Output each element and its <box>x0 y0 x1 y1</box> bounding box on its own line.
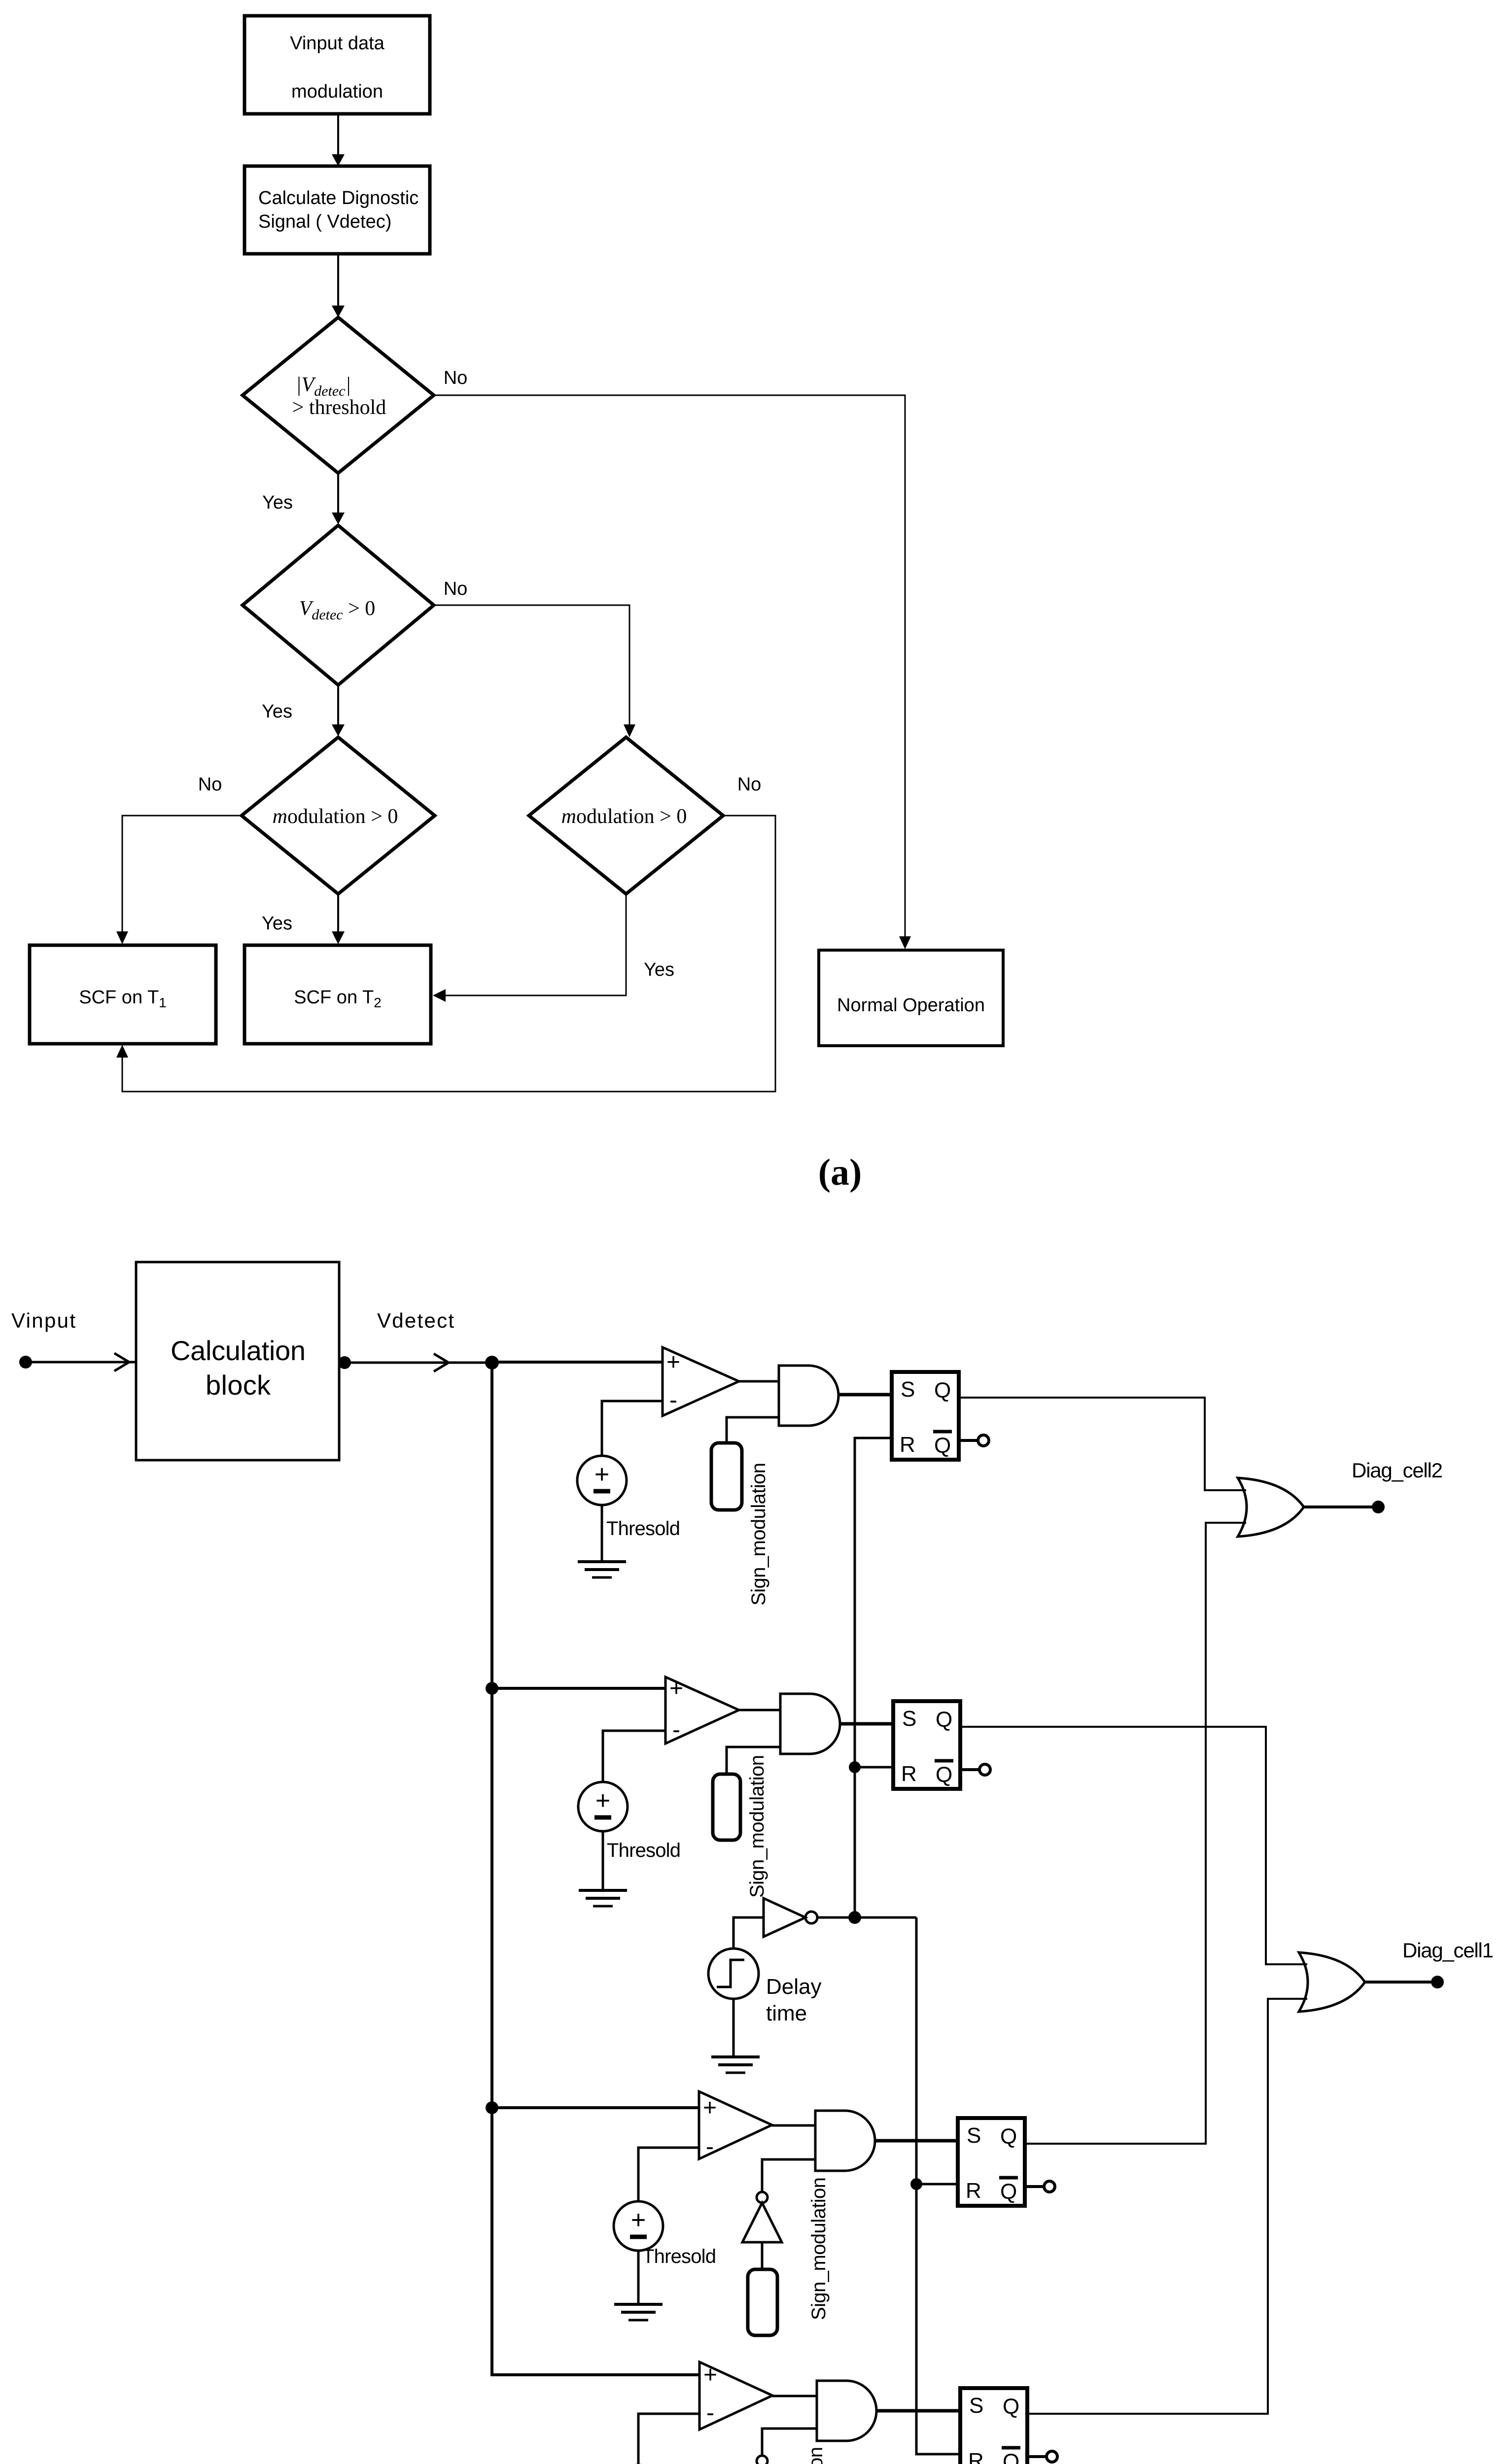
wire: pill P2 to AND G2 lower input <box>727 1747 780 1774</box>
source V0: Delay time (step source) <box>708 1949 759 1999</box>
svg-text:Q: Q <box>1000 2180 1017 2204</box>
svg-text:SCF on T2: SCF on T2 <box>294 987 382 1010</box>
svg-text:+: + <box>594 1460 609 1489</box>
wire: Vdetect line with arrowhead to main node <box>345 1354 492 1371</box>
node Vinput terminal dot <box>19 1356 32 1369</box>
pin FF3 Qbar output stub and bubble <box>1025 2181 1055 2192</box>
wire: pill P3 to NOT N3 <box>761 2242 764 2269</box>
op-amp comparator U2 <box>665 1676 739 1744</box>
wire: diamond1 No to Normal Operation <box>434 395 911 949</box>
svg-text:SCF on T1: SCF on T1 <box>79 987 167 1010</box>
svg-text:Diag_cell2: Diag_cell2 <box>1352 1459 1443 1482</box>
AND gate G4 <box>817 2381 876 2441</box>
wire: FF1 Q to OR1 top input <box>959 1398 1246 1490</box>
svg-text:Sign_modulation: Sign_modulation <box>748 1463 769 1606</box>
svg-text:Q: Q <box>934 1434 951 1458</box>
wire: OR1 output to Diag_cell2 terminal <box>1304 1506 1378 1508</box>
AND gate G3 <box>815 2111 875 2171</box>
op-amp comparator U3 <box>699 2091 772 2160</box>
svg-text:-: - <box>672 1717 680 1743</box>
NOT gate N0 (delay inverter, pointing right) <box>764 1898 817 1937</box>
wire: diamond4 Yes to SCF T2 right <box>433 894 626 1002</box>
wire: box1 to box2 arrow <box>332 114 345 166</box>
svg-text:modulation > 0: modulation > 0 <box>273 805 398 828</box>
voltage source V3 Threshold <box>614 2201 663 2251</box>
svg-text:S: S <box>901 1377 915 1402</box>
SR latch FF1 <box>892 1372 959 1460</box>
wire: NOT N0 output to reset node <box>817 1916 916 1919</box>
node A: main junction dot <box>485 1356 499 1369</box>
svg-text:Sign_modulation: Sign_modulation <box>746 1755 768 1898</box>
SR latch FF2 <box>893 1701 960 1789</box>
wire: FF3 R stub <box>916 2183 958 2186</box>
svg-text:R: R <box>966 2179 981 2203</box>
node: Diag_cell1 terminal dot <box>1431 1976 1444 1988</box>
wire: reset line down to FF3 R and FF4 R <box>916 1917 960 2454</box>
node C: branch dot channel3 <box>486 2101 498 2114</box>
pin FF2 Qbar output stub and bubble <box>960 1764 990 1775</box>
wire: delay source to NOT N0 input <box>733 1917 764 1949</box>
svg-text:+: + <box>669 1676 683 1702</box>
wire: pill P1 to AND G1 lower input <box>727 1417 779 1443</box>
wire: diamond3 Yes to SCF T2 <box>332 894 345 944</box>
wire: threshold V3 to U3 - input <box>638 2148 699 2201</box>
wire: main vertical bus <box>492 1363 699 2375</box>
SR latch FF4 <box>960 2388 1027 2464</box>
pin FF1 Qbar output stub and bubble <box>959 1435 989 1446</box>
decision diamond3: modulation > 0 (left) <box>242 737 435 894</box>
svg-text:+: + <box>666 1349 680 1375</box>
wire: AND G4 output to FF4 S <box>877 2409 960 2413</box>
svg-text:Yes: Yes <box>262 701 292 722</box>
flowchart box: Vinput data modulation <box>244 16 430 114</box>
node: Calculation block output dot <box>338 1356 351 1369</box>
NOT gate N4 (inverter, pointing up) <box>742 2456 782 2464</box>
svg-text:Thresold: Thresold <box>606 1518 680 1540</box>
svg-text:R: R <box>900 1433 915 1457</box>
svg-text:Thresold: Thresold <box>607 1840 681 1861</box>
wire: U2 output to AND G2 <box>739 1709 780 1711</box>
wire: NOT N3 output to AND G3 lower input <box>762 2159 815 2191</box>
svg-text:Normal Operation: Normal Operation <box>837 995 985 1016</box>
svg-text:> threshold: > threshold <box>292 396 386 419</box>
svg-text:time: time <box>766 2001 807 2025</box>
svg-text:Sign_modulation: Sign_modulation <box>805 2447 827 2464</box>
svg-text:modulation > 0: modulation > 0 <box>561 805 687 828</box>
svg-text:Yes: Yes <box>262 492 293 513</box>
wire: V2 to ground <box>602 1832 604 1890</box>
node: FF3 R junction dot <box>910 2178 922 2190</box>
wire: threshold V4 to U4 - input <box>638 2414 699 2464</box>
svg-text:block: block <box>206 1369 271 1401</box>
wire: reset vertical to FF1 R and FF2 R <box>855 1438 892 1917</box>
OR gate OR2 <box>1299 1952 1365 2012</box>
node B: branch dot channel2 <box>486 1682 498 1695</box>
svg-text:R: R <box>968 2449 984 2464</box>
pin FF4 Qbar output stub and bubble <box>1027 2451 1057 2462</box>
wire: FF3 Q to OR1 bottom input <box>1025 1523 1246 2144</box>
wire: OR2 output to Diag_cell1 terminal <box>1365 1981 1437 1984</box>
voltage source V1 Threshold <box>577 1456 627 1505</box>
wire: FF4 Q to OR2 bottom input <box>1027 1999 1307 2414</box>
svg-text:-: - <box>706 2134 714 2160</box>
svg-text:S: S <box>967 2123 981 2148</box>
ground GND0 <box>711 2057 760 2073</box>
svg-text:Q: Q <box>936 1763 952 1787</box>
wire: node B to comparator U2 + input <box>492 1687 665 1690</box>
svg-text:Diag_cell1: Diag_cell1 <box>1402 1939 1494 1962</box>
decision diamond2: Vdetec > 0 <box>243 525 434 685</box>
wire: diamond2 Yes to diamond3 <box>332 685 345 736</box>
ground GND3 <box>614 2304 663 2320</box>
wire: node C to comparator U3 + input <box>492 2106 699 2109</box>
wire: U3 output to AND G3 <box>772 2124 815 2127</box>
svg-text:Delay: Delay <box>766 1975 822 1999</box>
svg-text:Thresold: Thresold <box>642 2246 716 2267</box>
wire: threshold V1 to U1 - input <box>602 1401 663 1455</box>
svg-text:+: + <box>595 1786 610 1815</box>
wire: diamond1 Yes to diamond2 <box>332 473 345 524</box>
svg-text:Q: Q <box>1003 2450 1019 2464</box>
NOT gate N3 (inverter, pointing up) <box>742 2192 782 2242</box>
svg-text:R: R <box>901 1762 917 1786</box>
op-amp comparator U4 <box>699 2362 772 2430</box>
decision diamond1: |Vdetec| > threshold <box>243 317 434 473</box>
wire: U1 output to AND G1 <box>739 1380 779 1383</box>
svg-text:Q: Q <box>936 1708 952 1732</box>
ground GND1 <box>578 1562 626 1577</box>
wire: AND G2 output to FF2 S <box>840 1722 893 1726</box>
block U0: Calculation block <box>136 1262 339 1460</box>
svg-text:Yes: Yes <box>262 913 292 934</box>
wire: node A to comparator U1 + input <box>492 1361 663 1364</box>
svg-text:Calculate Dignostic: Calculate Dignostic <box>258 188 419 208</box>
svg-text:Q: Q <box>1003 2395 1019 2419</box>
wire: FF2 Q to OR2 top input <box>960 1727 1307 1964</box>
svg-text:Vinput data: Vinput data <box>290 33 384 54</box>
wire: V1 to ground <box>601 1506 603 1562</box>
svg-text:modulation: modulation <box>291 81 383 102</box>
svg-text:Q: Q <box>1000 2124 1017 2149</box>
wire: AND G1 output to FF1 S <box>839 1393 892 1397</box>
signal block Sign_modulation pill P1 <box>711 1443 742 1510</box>
wire: delay source to ground <box>733 1999 735 2057</box>
wire: diamond4 No feedback to SCF T1 bottom <box>116 816 775 1092</box>
wire: FF2 R stub <box>855 1766 893 1769</box>
decision diamond4: modulation > 0 (right) <box>529 737 723 894</box>
svg-text:(a): (a) <box>818 1152 862 1193</box>
svg-text:+: + <box>631 2206 646 2234</box>
node: FF2 R junction dot <box>849 1761 861 1773</box>
flowchart box: SCF on T1 <box>30 945 216 1044</box>
svg-text:-: - <box>706 2400 714 2426</box>
svg-text:+: + <box>703 2095 717 2121</box>
OR gate OR1 <box>1238 1478 1304 1537</box>
voltage source V2 Threshold <box>578 1782 628 1831</box>
svg-text:S: S <box>969 2394 983 2418</box>
wire: AND G3 output to FF3 S <box>875 2139 958 2143</box>
node: Diag_cell2 terminal dot <box>1372 1501 1385 1513</box>
wire: U4 output to AND G4 <box>772 2395 817 2397</box>
signal block Sign_modulation pill P2 <box>713 1774 740 1840</box>
op-amp comparator U1 <box>663 1347 739 1416</box>
SR latch FF3 <box>958 2118 1025 2206</box>
svg-text:Signal ( Vdetec): Signal ( Vdetec) <box>258 211 391 232</box>
svg-text:Sign_modulation: Sign_modulation <box>808 2177 830 2320</box>
svg-text:No: No <box>737 774 762 795</box>
flowchart box: Normal Operation <box>819 950 1003 1046</box>
node R-chain junction dot <box>848 1911 861 1924</box>
svg-text:No: No <box>444 579 468 599</box>
wire: Vinput to Calculation block with arrowhead <box>26 1353 135 1371</box>
wire: NOT N4 output to AND G4 lower input <box>762 2429 817 2456</box>
wire: box2 to diamond1 arrow <box>332 254 345 317</box>
svg-text:Calculation: Calculation <box>171 1335 306 1366</box>
AND gate G1 <box>779 1366 838 1426</box>
svg-text:+: + <box>703 2362 717 2388</box>
svg-text:No: No <box>444 368 468 388</box>
wire: diamond2 No to diamond4 <box>434 605 635 737</box>
flowchart box: Calculate Dignostic Signal (Vdetec) <box>244 166 430 254</box>
wire: diamond3 No to SCF T1 top <box>116 816 242 944</box>
wire: V3 to ground <box>637 2251 640 2304</box>
svg-text:Vdetect: Vdetect <box>377 1309 454 1332</box>
signal block Sign_modulation pill P3 <box>748 2269 777 2335</box>
flowchart box: SCF on T2 <box>244 945 431 1044</box>
ground GND2 <box>579 1890 627 1906</box>
svg-text:No: No <box>198 774 222 795</box>
svg-text:-: - <box>669 1387 677 1413</box>
wire: threshold V2 to U2 - input <box>603 1731 665 1781</box>
AND gate G2 <box>780 1694 840 1754</box>
svg-text:Yes: Yes <box>644 959 674 980</box>
svg-text:Q: Q <box>934 1378 951 1403</box>
svg-text:S: S <box>902 1707 916 1731</box>
